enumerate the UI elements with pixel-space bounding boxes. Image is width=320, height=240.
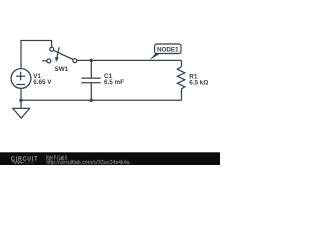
svg-text:6.65 V: 6.65 V: [33, 79, 52, 86]
svg-text:NODE1: NODE1: [157, 46, 179, 53]
svg-text:SW1: SW1: [55, 66, 69, 73]
svg-text:6.5 mF: 6.5 mF: [104, 79, 124, 86]
svg-text:LAB: LAB: [25, 160, 34, 165]
svg-text:http://circuitlab.com/c/32uc24: http://circuitlab.com/c/32uc24s4k4a: [46, 160, 130, 165]
svg-text:6.5 kΩ: 6.5 kΩ: [189, 79, 208, 86]
